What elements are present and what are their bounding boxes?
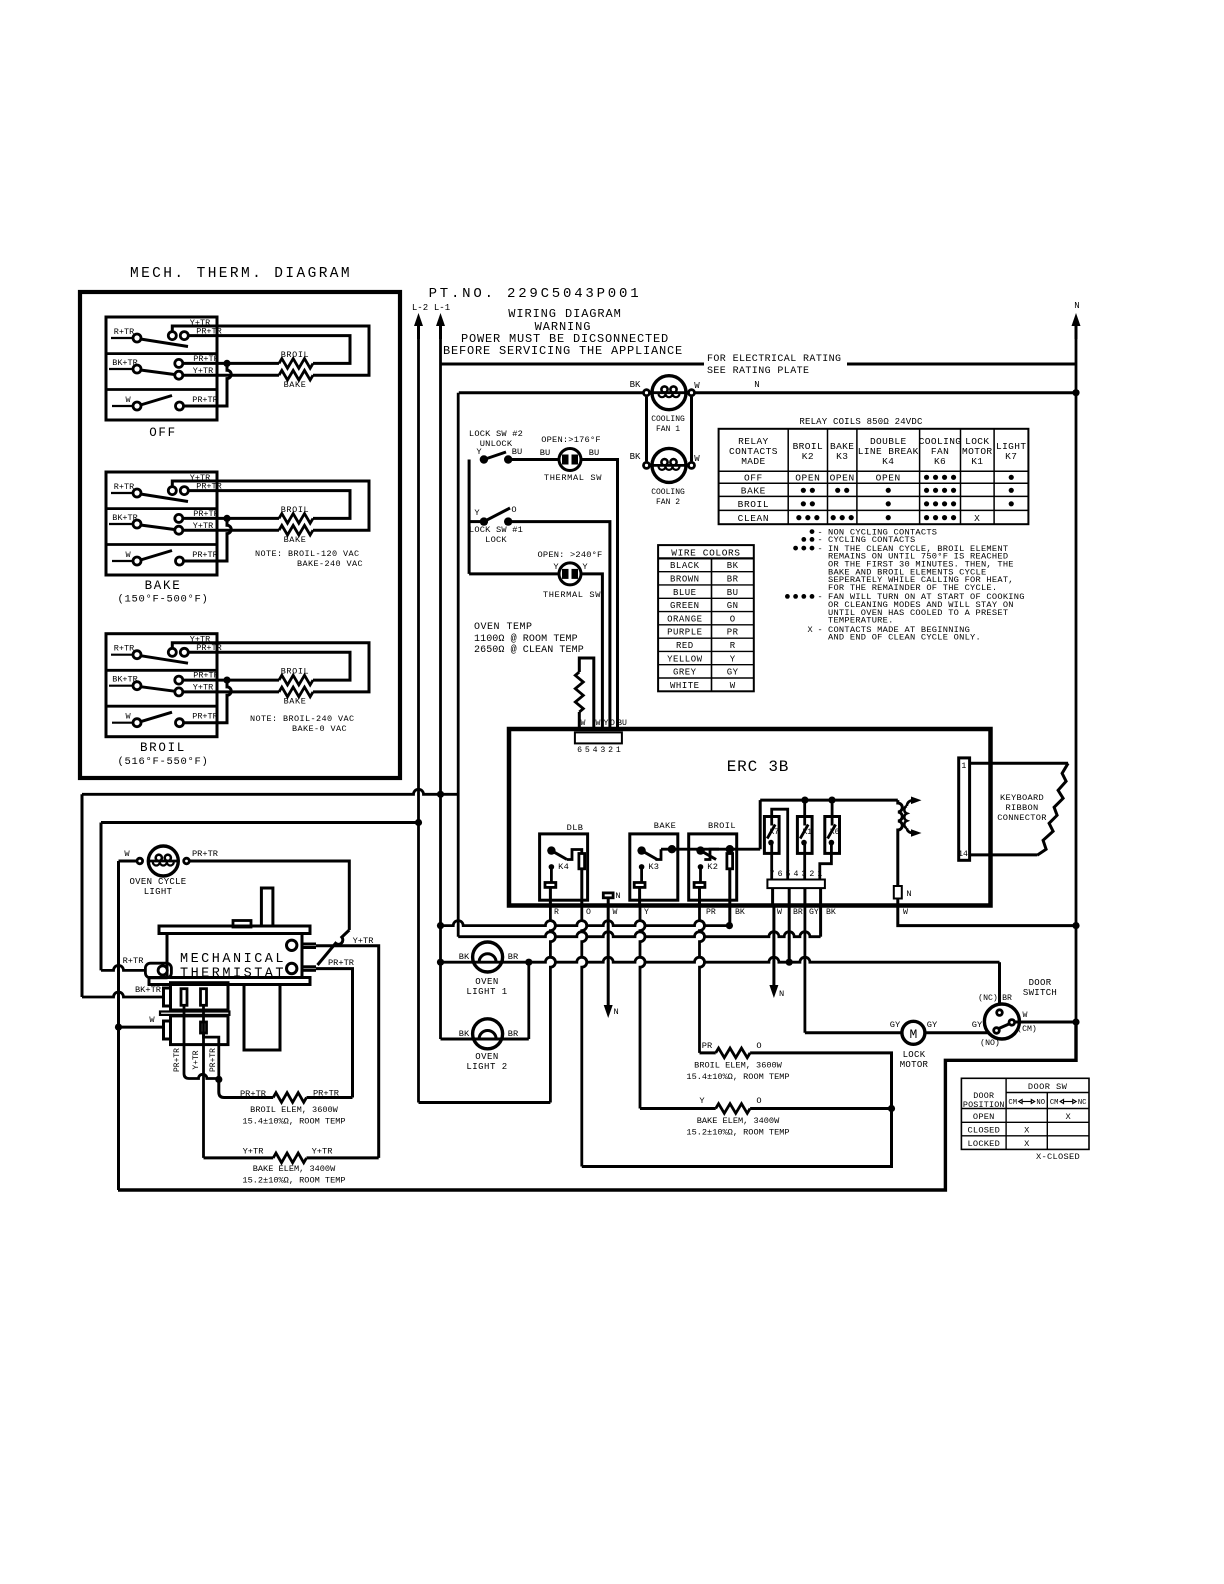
rail x82 down: [81, 794, 84, 997]
wire rating left: [441, 363, 705, 366]
lock sw2 blade: [484, 452, 506, 460]
OFF resistor BROIL: [279, 359, 313, 369]
wire pin7 W down: [771, 888, 774, 905]
svg-text:THERMISTAT: THERMISTAT: [180, 967, 286, 982]
thermostat switch block: [244, 985, 280, 1051]
svg-text:W: W: [124, 849, 130, 859]
svg-text:FAN 2: FAN 2: [656, 498, 680, 507]
ERC lower strip: [767, 880, 825, 889]
relay BROIL contact: [696, 846, 704, 854]
svg-text:BR: BR: [508, 952, 518, 962]
svg-text:BAKE: BAKE: [654, 821, 676, 831]
wire light diag to PR+TR terminal: [318, 930, 350, 965]
svg-text:4: 4: [793, 870, 798, 879]
wire K6 top: [831, 800, 834, 816]
svg-text:R: R: [730, 641, 736, 651]
BAKE junction node: [223, 515, 230, 522]
svg-text:K2: K2: [802, 451, 814, 462]
svg-text:CLOSED: CLOSED: [968, 1126, 1000, 1136]
svg-text:BROIL ELEM, 3600W: BROIL ELEM, 3600W: [694, 1061, 783, 1071]
svg-text:OPEN: OPEN: [876, 473, 901, 484]
svg-text:K4: K4: [882, 456, 894, 467]
wire GY to lock motor: [805, 1031, 902, 1034]
svg-text:PR+TR: PR+TR: [192, 550, 218, 560]
relay contact table grid: [719, 429, 1029, 524]
wire K7 top to pin5: [772, 809, 788, 879]
wire Y+TR drop: [202, 1005, 205, 1158]
svg-text:(NC): (NC): [978, 993, 998, 1003]
plug spade BK+TR: [164, 988, 171, 1006]
wire N rail bottom path: [118, 1022, 1076, 1190]
svg-text:(NO): (NO): [980, 1038, 1000, 1048]
svg-text:Y+TR: Y+TR: [243, 1147, 264, 1157]
svg-text:SEE RATING PLATE: SEE RATING PLATE: [707, 366, 809, 377]
svg-text:K1: K1: [803, 829, 813, 837]
svg-text:LOCK: LOCK: [903, 1050, 926, 1060]
wire K6 bottom to pin1: [820, 843, 832, 880]
wire Y down: [640, 906, 645, 1109]
wire R+TR to eyelet: [101, 965, 145, 970]
svg-text:W: W: [694, 381, 700, 391]
svg-text:R+TR: R+TR: [114, 644, 134, 654]
svg-text:BR: BR: [508, 1029, 518, 1039]
wire R down: [550, 906, 555, 1103]
svg-text:BROIL: BROIL: [738, 499, 770, 510]
svg-text:O: O: [756, 1041, 761, 1051]
OFF wire Y+TR to BAKE resistor: [172, 326, 369, 375]
svg-text:3: 3: [801, 870, 806, 879]
svg-text:4: 4: [593, 746, 598, 755]
svg-text:BU: BU: [540, 448, 550, 458]
wire lock sw2 to thermal sw1: [508, 460, 617, 730]
svg-text:L-1: L-1: [434, 303, 450, 313]
svg-text:K7: K7: [770, 829, 780, 837]
svg-text:GY: GY: [727, 668, 739, 678]
svg-text:GN: GN: [727, 601, 739, 611]
BROIL junction node: [223, 677, 230, 684]
svg-text:Y: Y: [699, 1096, 705, 1106]
svg-text:BU: BU: [589, 448, 599, 458]
svg-text:15.4±10%Ω, ROOM TEMP: 15.4±10%Ω, ROOM TEMP: [686, 1072, 789, 1082]
thermostat bottom flange: [149, 978, 310, 985]
BROIL row3 PR+TR contact: [176, 719, 184, 727]
svg-text:FAN 1: FAN 1: [656, 425, 680, 434]
broil elem right lead left: [700, 1051, 716, 1054]
cooling fan 2: [652, 448, 686, 482]
svg-text:15.2±10%Ω, ROOM TEMP: 15.2±10%Ω, ROOM TEMP: [242, 1176, 345, 1186]
svg-text:BR: BR: [727, 575, 739, 585]
svg-text:BEFORE SERVICING THE APPLIANCE: BEFORE SERVICING THE APPLIANCE: [443, 344, 683, 358]
oven light 1: [473, 942, 503, 972]
BAKE row1 blade: [141, 494, 189, 502]
thermostat terminal Y+TR: [302, 943, 316, 946]
svg-text:Y+TR: Y+TR: [312, 1147, 333, 1157]
svg-text:2: 2: [608, 746, 613, 755]
K bus: [760, 799, 898, 802]
svg-text:K7: K7: [1005, 451, 1017, 462]
svg-text:GY: GY: [927, 1020, 938, 1030]
svg-text:-: -: [817, 625, 822, 635]
cooling fan 1: [652, 376, 686, 410]
wire motor to door switch: [925, 1031, 990, 1034]
wire GY down: [804, 906, 807, 1033]
BROIL switch box: [106, 634, 217, 737]
BAKE row2 blade: [141, 525, 175, 530]
svg-text:W: W: [1023, 1011, 1028, 1020]
wire BROIL to K bus: [759, 800, 762, 849]
arrow L-2: [417, 319, 420, 339]
plug blade PR+TR upper: [181, 989, 187, 1006]
svg-text:RELAY COILS 850Ω 24VDC: RELAY COILS 850Ω 24VDC: [799, 417, 923, 427]
svg-text:BAKE: BAKE: [741, 486, 766, 497]
wire lock loop bottom to thermal sw2: [469, 572, 559, 575]
svg-text:THERMAL SW: THERMAL SW: [544, 473, 602, 483]
svg-text:CM: CM: [1050, 1099, 1059, 1107]
svg-text:BK: BK: [459, 1029, 470, 1039]
svg-text:N: N: [615, 891, 620, 901]
arrow N: [1075, 319, 1078, 339]
thermostat terminal PR+TR: [302, 965, 316, 968]
svg-text:15.2±10%Ω, ROOM TEMP: 15.2±10%Ω, ROOM TEMP: [686, 1128, 789, 1138]
svg-text:WIRING DIAGRAM: WIRING DIAGRAM: [508, 307, 621, 321]
svg-text:LOCK: LOCK: [485, 535, 507, 545]
rail box2 left: [100, 823, 103, 971]
wire BK left down: [728, 906, 731, 926]
svg-text:DOOR: DOOR: [1029, 978, 1052, 988]
svg-text:2650Ω @ CLEAN TEMP: 2650Ω @ CLEAN TEMP: [474, 644, 584, 656]
svg-text:BR: BR: [1002, 994, 1012, 1003]
OFF row3 blade: [141, 396, 173, 406]
svg-text:BROIL: BROIL: [281, 505, 310, 515]
svg-text:RIBBON: RIBBON: [1005, 803, 1038, 813]
BAKE row3 blade: [141, 551, 173, 561]
BAKE wire Y+TR row2 to BAKE resistor: [182, 529, 279, 532]
wire W right down N arrow: [773, 904, 776, 907]
relay BAKE coil: [639, 864, 645, 870]
svg-text:1100Ω @ ROOM TEMP: 1100Ω @ ROOM TEMP: [474, 633, 578, 645]
svg-text:GY: GY: [972, 1020, 983, 1030]
lock motor: [902, 1021, 925, 1044]
svg-text:BAKE: BAKE: [145, 579, 182, 593]
rail L-1: [439, 339, 442, 794]
bus1 BK: [441, 921, 730, 926]
svg-text:BR: BR: [793, 908, 803, 917]
wire transformer W to N rail: [898, 906, 1076, 926]
wire bake elem left lead: [204, 1156, 274, 1159]
svg-text:PR: PR: [706, 908, 716, 917]
svg-text:BU: BU: [617, 719, 627, 728]
svg-text:1: 1: [616, 746, 621, 755]
svg-text:BU: BU: [512, 447, 522, 457]
lock sw1 blade: [484, 508, 510, 522]
relay BROIL coil: [698, 864, 704, 870]
plug blade hook lower: [201, 1022, 207, 1033]
wire door switch CM to N rail: [1015, 1021, 1076, 1024]
svg-text:K4: K4: [558, 862, 569, 872]
oven temp sensor resistor: [575, 672, 583, 712]
svg-text:BAKE: BAKE: [284, 380, 307, 390]
svg-text:GREEN: GREEN: [670, 601, 700, 611]
svg-text:NC: NC: [1078, 1099, 1087, 1107]
wire relay through bus: [661, 848, 719, 851]
plug blade Y+TR upper: [201, 989, 207, 1006]
svg-text:Y: Y: [474, 508, 480, 518]
relay K6 box: [825, 817, 840, 854]
relay legend notes: [810, 529, 815, 534]
BROIL row2 Y+TR contact: [175, 688, 183, 696]
thermostat shaft: [261, 888, 273, 926]
wire BR down: [788, 906, 791, 963]
svg-text:SWITCH: SWITCH: [1023, 988, 1057, 998]
svg-text:OFF: OFF: [744, 473, 763, 484]
svg-text:5: 5: [786, 870, 791, 879]
svg-text:(516°F-550°F): (516°F-550°F): [117, 756, 208, 768]
BAKE row1 PR+TR contact: [180, 487, 188, 495]
svg-text:K6: K6: [934, 456, 946, 467]
relay BAKE box: [630, 834, 678, 900]
svg-text:BROIL: BROIL: [140, 741, 186, 755]
svg-text:W: W: [694, 454, 700, 464]
BAKE contact jog: [655, 849, 661, 859]
rail 458 BK right: [457, 393, 460, 937]
svg-text:W: W: [149, 1015, 155, 1025]
svg-text:BAKE: BAKE: [284, 535, 307, 545]
BAKE wire Y+TR to BAKE resistor: [172, 481, 369, 530]
rail L-2: [417, 339, 420, 823]
svg-text:DOOR SW: DOOR SW: [1028, 1082, 1068, 1092]
svg-text:NOTE: BROIL-120 VAC: NOTE: BROIL-120 VAC: [255, 549, 360, 559]
svg-text:PR+TR: PR+TR: [240, 1089, 266, 1099]
svg-text:BAKE-240 VAC: BAKE-240 VAC: [297, 559, 363, 569]
svg-text:7: 7: [770, 870, 775, 879]
svg-text:BK: BK: [630, 380, 641, 390]
svg-text:LOCK SW #1: LOCK SW #1: [469, 525, 523, 535]
relay BAKE contact: [637, 846, 645, 854]
svg-text:W: W: [613, 908, 618, 917]
svg-text:YELLOW: YELLOW: [667, 654, 703, 664]
svg-text:DLB: DLB: [567, 823, 584, 833]
thermostat screws: [287, 940, 297, 950]
svg-text:W: W: [581, 719, 586, 728]
svg-text:W: W: [903, 908, 908, 917]
wire fan1-fan2 right: [690, 397, 693, 462]
svg-text:W: W: [596, 719, 601, 728]
OFF row1 PR+TR contact: [180, 332, 188, 340]
svg-text:W: W: [125, 550, 131, 560]
svg-text:X: X: [1024, 1126, 1030, 1136]
svg-text:1: 1: [961, 762, 966, 771]
bus3 oven light feed: [441, 957, 1000, 962]
svg-text:Y+TR: Y+TR: [192, 1050, 201, 1069]
wire pin5 BR down: [788, 888, 791, 905]
BROIL output rect: [727, 854, 733, 869]
svg-text:KEYBOARD: KEYBOARD: [1000, 793, 1044, 803]
svg-text:BAKE ELEM, 3400W: BAKE ELEM, 3400W: [697, 1116, 780, 1126]
BAKE row2 PR+TR contact: [175, 514, 183, 522]
wire K1 bottom to pin3: [803, 843, 806, 880]
svg-text:6: 6: [778, 870, 783, 879]
svg-text:OVEN: OVEN: [475, 1052, 499, 1062]
wire O down: [582, 906, 587, 1167]
wire Y+TR terminal run: [316, 946, 379, 1158]
svg-text:CLEAN: CLEAN: [738, 513, 770, 524]
wire light2 line: [441, 1038, 529, 1041]
OFF resistor BAKE: [279, 370, 313, 380]
svg-text:OFF: OFF: [149, 426, 177, 440]
OFF junction node: [223, 360, 230, 367]
svg-text:M: M: [909, 1027, 917, 1042]
svg-text:MOTOR: MOTOR: [900, 1060, 929, 1070]
svg-text:X: X: [1024, 1139, 1030, 1149]
svg-text:-: -: [817, 592, 822, 602]
svg-text:W: W: [730, 681, 736, 691]
thermal switch 2: [559, 563, 581, 585]
svg-text:3: 3: [600, 746, 605, 755]
svg-text:BROWN: BROWN: [670, 575, 700, 585]
svg-text:OVEN: OVEN: [475, 977, 499, 987]
svg-text:LIGHT: LIGHT: [144, 887, 173, 897]
BROIL wire PR+TR row2 to junction: [182, 679, 279, 682]
BAKE wire junction to row3: [184, 518, 232, 561]
svg-text:PR+TR: PR+TR: [209, 1048, 218, 1072]
svg-text:PR: PR: [727, 628, 739, 638]
keyboard connector pins: [959, 758, 970, 860]
svg-text:R+TR: R+TR: [114, 482, 134, 492]
relay K6 blade: [828, 825, 836, 839]
wire PR down: [700, 906, 705, 1053]
svg-text:L-2: L-2: [412, 303, 428, 313]
svg-text:LIGHT 1: LIGHT 1: [466, 987, 507, 997]
svg-text:NO: NO: [1036, 1099, 1045, 1107]
BAKE row1 Y+TR contact: [168, 487, 176, 495]
door switch: [984, 1004, 1019, 1039]
svg-text:1: 1: [817, 870, 822, 879]
svg-text:LOCK SW #2: LOCK SW #2: [469, 429, 523, 439]
BROIL row1 blade: [141, 656, 189, 664]
wire A BK: [82, 789, 458, 794]
svg-text:BK+TR: BK+TR: [135, 985, 161, 995]
svg-text:X: X: [974, 513, 980, 524]
svg-text:Y: Y: [730, 654, 736, 664]
wire broil elem left to PR+TR run: [307, 1096, 353, 1099]
wire K1 top: [803, 800, 806, 816]
wire sensor left to pin6: [578, 712, 581, 729]
svg-text:N: N: [906, 889, 911, 899]
svg-text:(150°F-500°F): (150°F-500°F): [117, 594, 208, 606]
svg-text:Y: Y: [582, 562, 588, 572]
ERC box: [509, 729, 991, 906]
svg-text:W: W: [777, 908, 782, 917]
wire R loop bottom: [419, 1101, 551, 1104]
keyboard connector top wire: [970, 762, 1069, 765]
svg-text:(CM): (CM): [1017, 1024, 1037, 1034]
plug housing lower: [171, 1016, 229, 1045]
lock sw1 left stub: [469, 520, 484, 523]
svg-text:K1: K1: [971, 456, 983, 467]
wire BK+TR to plug: [82, 992, 164, 997]
svg-text:BK: BK: [459, 952, 470, 962]
svg-text:PR+TR: PR+TR: [173, 1048, 182, 1072]
wire rating right: [847, 363, 1076, 366]
transformer primary: [898, 800, 903, 886]
wire PR+TR drop: [184, 1005, 219, 1078]
svg-text:PR+TR: PR+TR: [192, 395, 218, 405]
OFF switch box: [106, 317, 217, 420]
svg-text:6: 6: [577, 746, 582, 755]
wire fan bus left: [459, 391, 647, 394]
wire B box2 top: [101, 821, 419, 824]
svg-text:PT.NO. 229C5043P001: PT.NO. 229C5043P001: [429, 286, 642, 302]
svg-text:Y: Y: [476, 447, 482, 457]
svg-text:OVEN TEMP: OVEN TEMP: [474, 622, 533, 633]
BROIL wire junction to row3: [184, 680, 232, 723]
oven temp sensor loop: [579, 658, 594, 729]
wire PR+TR terminal run: [316, 969, 353, 1098]
transformer secondary: [904, 806, 906, 828]
svg-text:O: O: [756, 1096, 761, 1106]
BAKE wire PR+TR row2 to junction: [182, 517, 279, 520]
ERC input strip: [575, 732, 622, 743]
wire pin1 BK down: [819, 888, 822, 905]
lock sw2 contacts: [480, 455, 488, 463]
svg-text:PURPLE: PURPLE: [667, 628, 702, 638]
svg-text:BK: BK: [735, 908, 745, 917]
resistor BAKE ELEM right: [716, 1104, 750, 1114]
relay K7 box: [764, 817, 779, 854]
arrow L-1: [439, 319, 442, 339]
lock loop left vertical: [468, 460, 471, 574]
BROIL row1 Y+TR contact: [168, 648, 176, 656]
svg-text:FOR ELECTRICAL RATING: FOR ELECTRICAL RATING: [707, 354, 841, 365]
svg-text:ORANGE: ORANGE: [667, 614, 702, 624]
svg-text:LOCKED: LOCKED: [968, 1139, 1000, 1149]
svg-text:MECHANICAL: MECHANICAL: [180, 952, 286, 967]
relay K1 blade: [800, 825, 808, 839]
svg-text:WIRE COLORS: WIRE COLORS: [671, 547, 740, 558]
keyboard connector torn edge: [1037, 763, 1068, 855]
svg-text:BROIL: BROIL: [708, 821, 736, 831]
svg-text:X: X: [807, 625, 812, 635]
svg-text:AND END OF CLEAN CYCLE ONLY.: AND END OF CLEAN CYCLE ONLY.: [828, 633, 981, 643]
BROIL resistor BAKE: [279, 687, 313, 697]
relay DLB contact: [547, 846, 555, 854]
door switch table grid: [961, 1078, 1089, 1149]
plug housing upper: [171, 983, 229, 1010]
N stub in ERC: [603, 893, 613, 898]
wire junction to broil elem: [219, 1079, 273, 1097]
svg-text:R+TR: R+TR: [114, 327, 134, 337]
svg-text:BK: BK: [727, 561, 739, 571]
oven cycle light: [148, 846, 178, 876]
wire cycle light PR+TR: [190, 861, 349, 930]
svg-text:O: O: [511, 505, 516, 515]
wire fan1-fan2 left: [645, 397, 648, 462]
plug divider plate: [160, 1012, 229, 1015]
wire thermal sw2 to ERC pin4: [581, 574, 602, 729]
OFF wire Y+TR row2 to BAKE resistor: [182, 374, 279, 377]
svg-text:W: W: [125, 395, 131, 405]
OFF row2 Y+TR contact: [175, 371, 183, 379]
BAKE resistor BROIL: [279, 514, 313, 524]
BROIL row3 blade: [141, 712, 173, 722]
thermostat body: [167, 934, 302, 978]
junction N door switch: [1072, 1018, 1079, 1025]
svg-text:CM: CM: [1008, 1099, 1017, 1107]
thermal switch 1: [559, 449, 581, 471]
wire bus3 to door switch NC: [998, 962, 1001, 1009]
BROIL resistor BROIL: [279, 675, 313, 685]
thermostat eyelet: [145, 963, 171, 978]
